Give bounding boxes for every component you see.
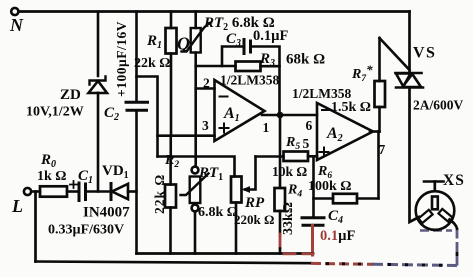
RT1 top terminal circle — [192, 167, 199, 174]
wire C3 right to output vertical — [251, 47, 280, 116]
wire ZD branch from rail — [97, 12, 100, 77]
resistor R1 — [166, 28, 177, 54]
socket left slot — [418, 210, 432, 223]
socket T bar — [424, 180, 444, 183]
svg-text:10V,1/2W: 10V,1/2W — [26, 105, 84, 120]
red tint on bus right — [303, 252, 313, 255]
wire VD1 to C2 line — [128, 190, 137, 193]
RP wiper arrowhead — [242, 186, 251, 193]
wire A2 output — [370, 130, 380, 133]
svg-text:VD1: VD1 — [102, 163, 129, 181]
svg-text:1k Ω: 1k Ω — [37, 169, 67, 184]
wire RP bottom leg — [235, 203, 238, 254]
wire RT2 drop from rail — [194, 12, 197, 29]
socket top slot — [432, 197, 438, 210]
wire common bus — [137, 252, 314, 255]
socket XS circle — [416, 191, 455, 230]
A1 plus sign — [220, 124, 229, 133]
blue vertical black dot — [456, 252, 459, 256]
wire triac down to socket — [410, 88, 420, 223]
svg-text:1.5k Ω: 1.5k Ω — [331, 100, 371, 115]
wire vref branch from C2 line — [137, 77, 158, 157]
svg-text:A2: A2 — [326, 125, 343, 144]
wire RT1 bottom leg — [194, 211, 197, 253]
terminal L — [24, 188, 31, 195]
junction dot output node A1 — [277, 112, 284, 119]
C1 plus sign — [70, 181, 77, 188]
wire pin2 — [196, 87, 215, 90]
resistor R7 — [375, 81, 386, 107]
svg-text:1/2LM358: 1/2LM358 — [292, 86, 351, 101]
svg-text:0.33µF/630V: 0.33µF/630V — [48, 223, 124, 238]
resistor R4 — [275, 188, 286, 211]
svg-text:3: 3 — [202, 118, 209, 133]
terminal N — [11, 8, 18, 15]
svg-text:0.1µF: 0.1µF — [320, 228, 355, 244]
wire bottom rail red dash-dot — [311, 262, 374, 266]
wire R1 drop from rail — [170, 12, 173, 29]
svg-text:A1: A1 — [223, 105, 240, 124]
wire R5 left from wiper corner — [256, 155, 284, 158]
svg-text:6: 6 — [306, 118, 313, 133]
socket earth stem — [433, 182, 436, 192]
capacitor C1 — [79, 183, 86, 201]
wire R6 left to pin5 node — [314, 197, 334, 200]
A2 minus sign — [322, 109, 330, 111]
svg-text:IN4007: IN4007 — [83, 205, 130, 221]
RT1 bottom terminal circle — [192, 205, 199, 212]
svg-text:+100µF/16V: +100µF/16V — [114, 21, 129, 97]
svg-text:N: N — [9, 15, 24, 35]
zener diode ZD — [89, 77, 108, 94]
wire blue dash vertical to socket — [456, 229, 459, 266]
wire ZD bottom to L line — [97, 93, 100, 192]
wire R4 bottom leg lower black — [279, 249, 282, 254]
wire L to R0 — [31, 190, 40, 193]
svg-text:0.1µF: 0.1µF — [253, 28, 288, 44]
thermistor RT2 — [182, 23, 212, 53]
triac VS — [396, 73, 424, 88]
wire R2 bottom leg — [169, 208, 172, 254]
wire R5 right to A2 pin5 — [308, 155, 317, 158]
wire bottom rail black — [36, 262, 312, 264]
svg-text:2A/600V: 2A/600V — [413, 98, 464, 113]
svg-text:6.8k Ω: 6.8k Ω — [198, 205, 238, 220]
wire bottom rail blue dash-dot — [372, 264, 457, 265]
rail black dots between blue dashes — [388, 263, 442, 267]
A1 minus sign — [220, 96, 228, 98]
wire R4 bottom leg red part — [279, 234, 282, 249]
svg-text:68k Ω: 68k Ω — [286, 52, 325, 68]
svg-text:XS: XS — [443, 172, 465, 189]
svg-text:1: 1 — [263, 120, 270, 135]
wire RT2 bottom / pin2 vertical — [194, 53, 197, 167]
potentiometer RP — [231, 177, 242, 203]
wire top rail — [19, 10, 410, 13]
wire right drop to triac — [408, 12, 411, 73]
svg-text:5: 5 — [303, 136, 310, 151]
resistor R3 — [236, 62, 261, 72]
wire C1 to VD1 — [86, 190, 111, 193]
svg-text:R7*: R7* — [351, 62, 373, 84]
wire R7 top leg — [378, 38, 381, 81]
resistor R0 — [40, 186, 67, 196]
svg-text:22k Ω: 22k Ω — [152, 174, 167, 214]
red tint on bus left — [284, 252, 295, 255]
wire pin3 — [158, 134, 215, 137]
wire C2 branch from rail — [135, 12, 138, 102]
wire RP wiper branch — [245, 157, 256, 190]
wire A1 output to A2 pin6 — [262, 114, 317, 117]
wire R4 bottom leg upper black — [279, 211, 282, 235]
svg-text:R5: R5 — [285, 135, 300, 152]
svg-text:C1: C1 — [78, 168, 93, 186]
svg-text:22k Ω: 22k Ω — [134, 56, 171, 71]
svg-text:L: L — [11, 196, 23, 216]
wire vref horizontal to RP top — [158, 157, 235, 177]
svg-text:33kΩ: 33kΩ — [281, 202, 296, 235]
svg-text:R0: R0 — [40, 152, 56, 170]
svg-text:C4: C4 — [328, 208, 343, 226]
wire R6 vertical from output — [377, 132, 380, 199]
wire L drop to bottom rail — [34, 192, 37, 262]
wire gate diagonal to triac — [380, 38, 410, 70]
wire R3 right to output vertical — [261, 65, 280, 68]
wire output node down to R4 — [279, 115, 282, 188]
thermistor RT1 — [181, 174, 209, 204]
op-amp A1 — [215, 80, 265, 141]
svg-text:R4: R4 — [287, 183, 302, 200]
A2 plus sign — [320, 148, 329, 157]
rail black dots between red dashes — [326, 262, 361, 265]
svg-text:10k Ω: 10k Ω — [272, 164, 307, 179]
wire C3 left branch — [222, 47, 243, 67]
resistor R5 — [284, 152, 309, 162]
svg-text:R1: R1 — [146, 33, 162, 51]
svg-text:220k Ω: 220k Ω — [234, 212, 274, 227]
svg-text:VS: VS — [413, 45, 436, 62]
svg-text:C3: C3 — [226, 31, 241, 49]
resistor R2 — [165, 185, 176, 208]
blue dash under socket — [420, 229, 452, 232]
socket right slot — [438, 209, 452, 222]
diode VD1 — [111, 184, 128, 200]
svg-text:1/2LM358: 1/2LM358 — [220, 73, 279, 88]
wire socket right pin to blue line — [450, 220, 458, 229]
wire C4 bottom leg red — [311, 225, 314, 255]
svg-text:C2: C2 — [104, 105, 119, 123]
wire R1 bottom to pin3 line — [170, 54, 173, 136]
wire R1 bottom continuation to R2 — [169, 136, 172, 157]
wire feedback node line y65 — [196, 65, 236, 68]
capacitor C2 — [126, 102, 148, 110]
op-amp A2 — [317, 103, 373, 160]
wire R2 top leg — [169, 157, 172, 185]
wire pin5 node vertical to C4 — [312, 156, 315, 216]
wire R7 lower leg — [378, 107, 381, 132]
svg-text:RP: RP — [244, 195, 265, 211]
wire R6 right leg — [357, 197, 379, 200]
capacitor C3 — [244, 40, 251, 54]
capacitor C4 — [302, 218, 324, 226]
resistor R6 — [333, 194, 357, 204]
svg-text:ZD: ZD — [60, 87, 81, 103]
wire C2 bottom down to common bus — [135, 110, 138, 253]
wire R0 to C1 — [67, 190, 79, 193]
